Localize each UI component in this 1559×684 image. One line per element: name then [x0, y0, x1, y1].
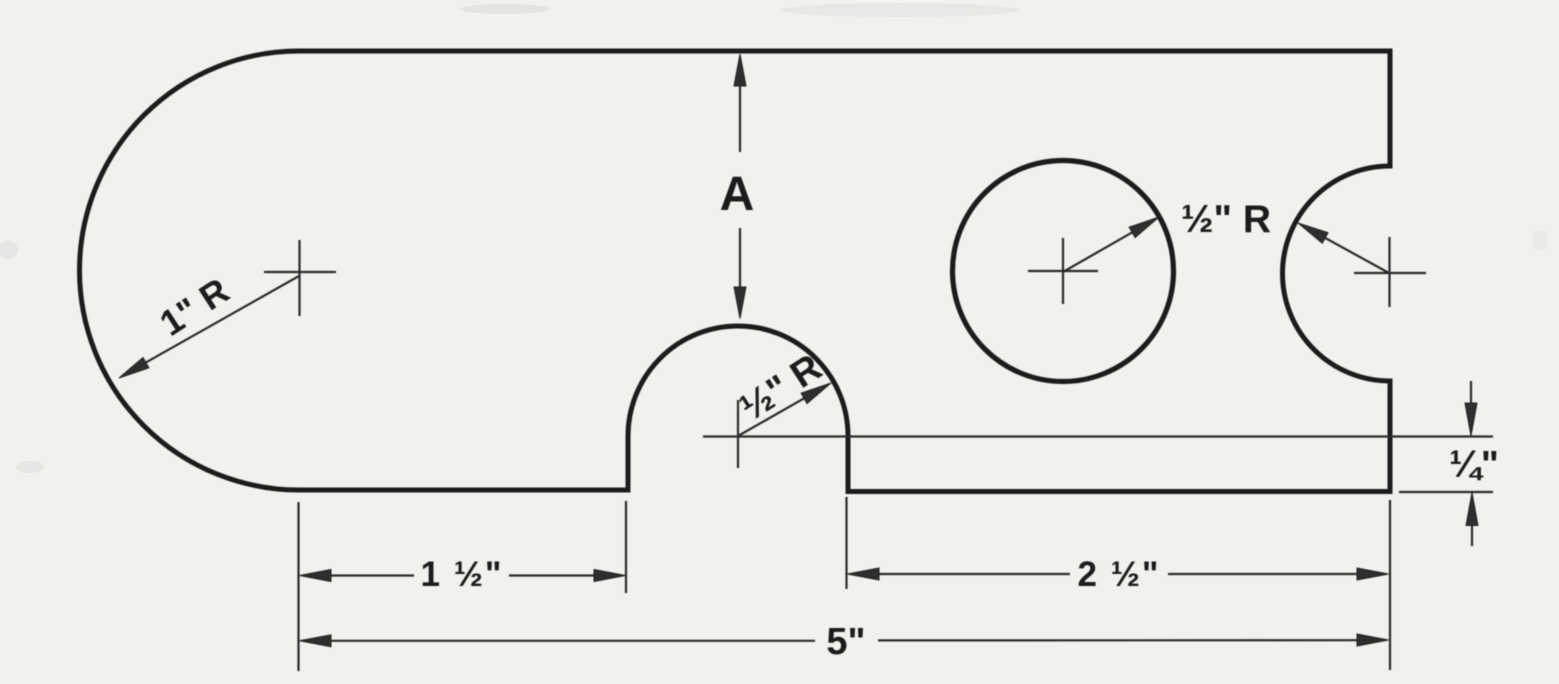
- svg-text:1 ½": 1 ½": [421, 555, 504, 594]
- svg-text:5": 5": [826, 621, 865, 663]
- svg-text:2 ½": 2 ½": [1078, 555, 1161, 594]
- svg-text:¼": ¼": [1449, 444, 1499, 486]
- svg-text:½" R: ½" R: [1181, 198, 1271, 241]
- svg-text:A: A: [720, 168, 755, 221]
